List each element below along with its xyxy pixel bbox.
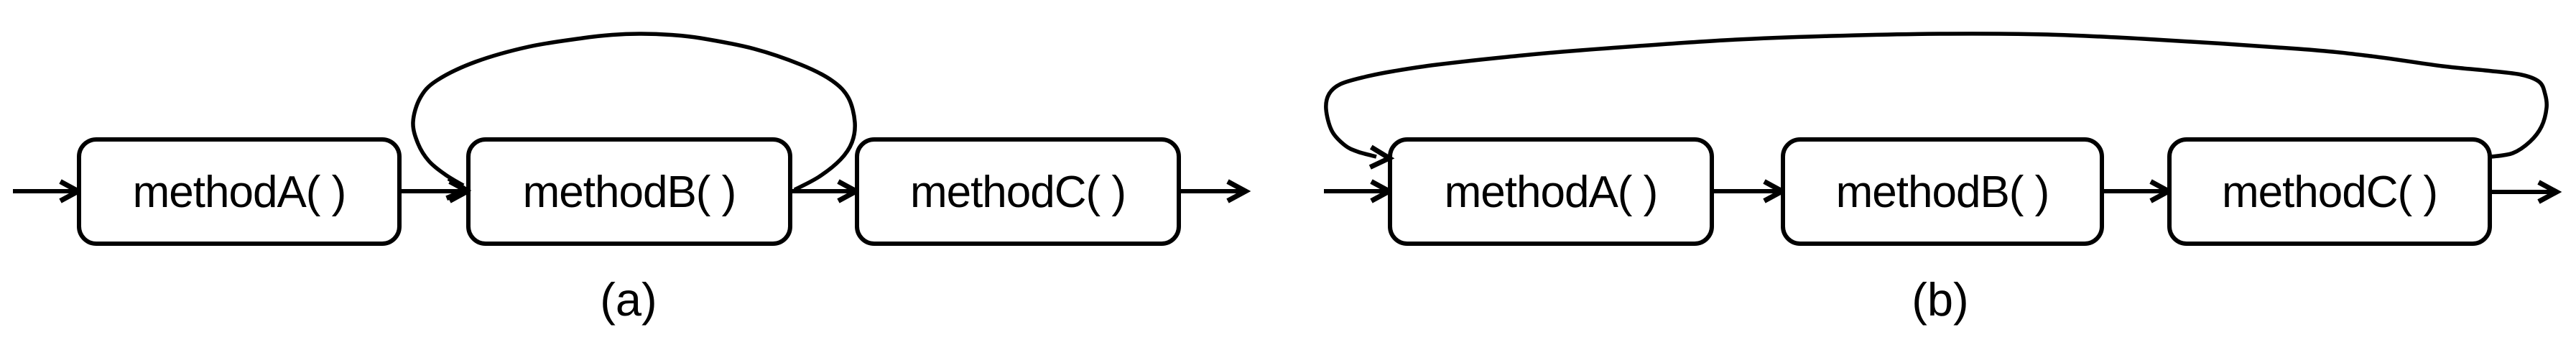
- node methodA (b): [1390, 139, 1712, 244]
- wire methodB to methodC (b): [2102, 182, 2169, 201]
- svg-text:methodC( ): methodC( ): [2222, 167, 2437, 217]
- wire big feedback loop methodC to methodA (b): [1326, 34, 2547, 168]
- node methodB (a): [468, 139, 790, 244]
- wire entry arrow (b): [1324, 182, 1389, 201]
- svg-text:(b): (b): [1912, 273, 1968, 326]
- node methodC (a): [857, 139, 1179, 244]
- wire methodB to methodC (a): [790, 182, 856, 201]
- wire entry arrow (a): [13, 182, 78, 201]
- node methodA (a): [79, 139, 399, 244]
- node methodC (b): [2169, 139, 2490, 244]
- svg-text:methodB( ): methodB( ): [1836, 167, 2049, 217]
- wire methodA to methodB (a): [399, 182, 468, 201]
- wire self-loop on methodB (a): [413, 34, 855, 200]
- svg-text:methodA( ): methodA( ): [1445, 167, 1658, 217]
- svg-text:methodA( ): methodA( ): [133, 167, 346, 217]
- svg-text:(a): (a): [600, 273, 657, 326]
- wire methodA to methodB (b): [1712, 182, 1782, 201]
- node methodB (b): [1783, 139, 2102, 244]
- wire exit arrow (a): [1179, 182, 1246, 201]
- svg-text:methodC( ): methodC( ): [910, 167, 1126, 217]
- svg-text:methodB( ): methodB( ): [523, 167, 736, 217]
- wire exit arrow (b): [2490, 183, 2557, 202]
